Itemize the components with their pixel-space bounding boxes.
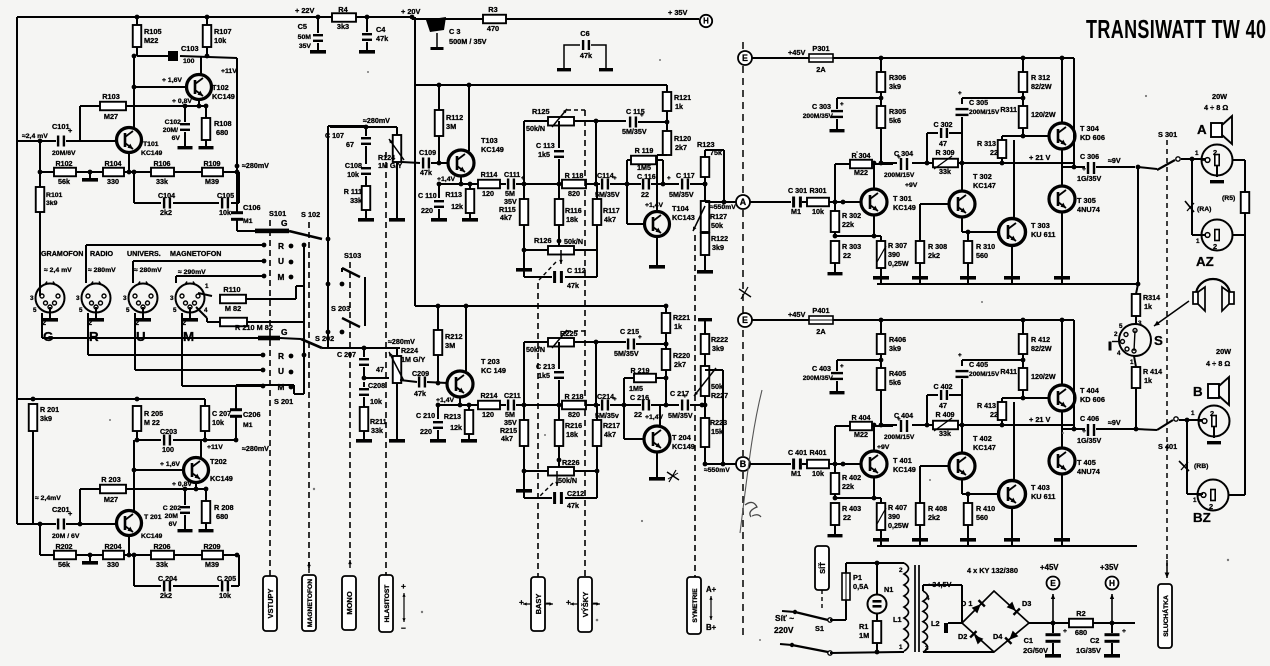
svg-text:≈2,4 mV: ≈2,4 mV: [22, 133, 48, 140]
capacitor C303: [836, 98, 838, 109]
svg-text:120: 120: [482, 190, 494, 198]
svg-text:+: +: [1122, 628, 1126, 635]
svg-text:1G/35V: 1G/35V: [1076, 646, 1101, 655]
svg-text:T104: T104: [672, 204, 690, 213]
svg-text:3k9: 3k9: [46, 200, 58, 207]
transistor T201: [117, 511, 142, 536]
svg-text:C 116: C 116: [637, 173, 656, 181]
svg-text:R 412: R 412: [1031, 336, 1050, 344]
resistor R407 trimmer: [877, 503, 886, 530]
wire T102 collector: [200, 56, 202, 75]
svg-text:C 210: C 210: [416, 412, 435, 420]
svg-text:R127: R127: [710, 213, 727, 221]
potentiometer R224 volume ch2: [396, 348, 398, 356]
capacitor C304: [900, 158, 902, 170]
svg-text:S103: S103: [344, 251, 361, 260]
svg-text:1: 1: [1196, 238, 1200, 245]
svg-text:10k: 10k: [812, 470, 824, 478]
svg-text:C 215: C 215: [620, 328, 639, 336]
wire +45V rail ch3: [833, 57, 1074, 59]
svg-text:+: +: [638, 334, 642, 341]
resistor R119: [626, 160, 628, 184]
capacitor C108: [361, 167, 371, 169]
svg-text:5M: 5M: [505, 411, 515, 419]
transformer core: [914, 565, 916, 652]
scan artifact cross A: [739, 289, 751, 297]
resistor R414: [1134, 356, 1136, 367]
svg-text:2k2: 2k2: [928, 514, 940, 522]
wire T304 base line: [1002, 135, 1050, 137]
svg-text:20M/6V: 20M/6V: [52, 150, 76, 157]
svg-text:KD 606: KD 606: [1080, 133, 1105, 142]
svg-text:R 307: R 307: [888, 242, 907, 250]
svg-text:R401: R401: [809, 449, 826, 457]
svg-text:3: 3: [30, 295, 34, 302]
svg-text:4: 4: [926, 595, 930, 602]
svg-text:BASY: BASY: [534, 594, 543, 615]
svg-text:R 404: R 404: [851, 414, 870, 422]
svg-text:M22: M22: [854, 169, 868, 177]
svg-text:C109: C109: [419, 149, 436, 157]
svg-text:R: R: [278, 351, 284, 361]
scan artifact pencil line: [740, 390, 762, 533]
svg-text:≈ 2,4mV: ≈ 2,4mV: [35, 495, 61, 502]
capacitor C106: [231, 211, 243, 214]
wire C403 tap: [880, 354, 882, 368]
potentiometer R125 treble: [548, 117, 574, 126]
resistor R213: [465, 410, 474, 434]
svg-text:C111: C111: [504, 171, 520, 179]
capacitor C403: [836, 360, 838, 371]
svg-text:C 401: C 401: [788, 449, 807, 457]
cross mark RB: [1179, 461, 1189, 471]
resistor R108: [202, 118, 211, 140]
svg-text:R 210 M 82: R 210 M 82: [235, 323, 273, 332]
svg-text:R314: R314: [1143, 294, 1160, 302]
capacitor C5: [313, 34, 323, 36]
svg-text:S 201: S 201: [274, 397, 293, 406]
svg-text:D 1: D 1: [961, 599, 972, 608]
svg-text:680: 680: [1075, 628, 1087, 637]
resistor R216: [558, 405, 560, 420]
svg-text:4k7: 4k7: [500, 214, 512, 222]
svg-text:H: H: [703, 17, 709, 26]
svg-text:T103: T103: [481, 136, 498, 145]
wire ch2 emitter row y555: [39, 524, 41, 555]
svg-text:47: 47: [939, 402, 947, 410]
svg-text:47k: 47k: [376, 34, 389, 43]
resistor R301: [807, 198, 829, 207]
wire C112 loop: [523, 250, 525, 277]
svg-text:R 409: R 409: [935, 411, 954, 419]
resistor R122: [701, 233, 710, 255]
svg-text:VÝŠKY: VÝŠKY: [581, 592, 590, 617]
resistor R212: [437, 306, 439, 330]
resistor R201: [29, 404, 38, 431]
svg-text:MONO: MONO: [345, 591, 354, 614]
svg-text:VSTUPY: VSTUPY: [266, 588, 275, 618]
capacitor C201: [17, 523, 56, 525]
svg-text:50k/N: 50k/N: [526, 125, 545, 133]
svg-text:R202: R202: [55, 543, 72, 551]
svg-text:+1,4V: +1,4V: [436, 397, 455, 404]
capacitor C209 coupling ch2: [364, 377, 389, 379]
svg-text:R120: R120: [674, 135, 691, 143]
svg-text:R 410: R 410: [976, 505, 995, 513]
svg-text:P301: P301: [812, 44, 829, 53]
svg-text:R4: R4: [338, 5, 348, 14]
svg-text:200M/15V: 200M/15V: [969, 109, 1000, 116]
capacitor C104: [163, 198, 165, 209]
svg-text:≈ 280mV: ≈ 280mV: [88, 267, 116, 274]
resistor R306: [880, 58, 882, 72]
transistor T403 power: [999, 481, 1026, 508]
svg-text:R 219: R 219: [630, 367, 649, 375]
resistor R3: [412, 18, 483, 20]
svg-text:82/2W: 82/2W: [1031, 345, 1052, 353]
svg-text:R126: R126: [534, 236, 552, 245]
wire R125 to C115 row: [596, 120, 626, 122]
capacitor C202: [184, 489, 186, 505]
svg-text:D3: D3: [1022, 599, 1031, 608]
node E +45V ch3: [738, 51, 752, 65]
svg-text:R211: R211: [370, 418, 387, 426]
svg-text:1G/35V: 1G/35V: [1077, 175, 1101, 183]
svg-text:50k/N: 50k/N: [564, 238, 583, 246]
svg-text:R 308: R 308: [928, 243, 947, 251]
wire R115 ground: [523, 250, 525, 268]
svg-text:P1: P1: [853, 573, 862, 582]
potentiometer R126 bass: [548, 246, 574, 255]
svg-text:+45V: +45V: [788, 48, 805, 57]
wire mid rail drop to bottom tone rail: [414, 85, 416, 306]
svg-text:22: 22: [641, 191, 649, 199]
svg-text:R121: R121: [674, 94, 691, 102]
resistor R310: [967, 232, 969, 241]
svg-text:33k: 33k: [156, 178, 168, 186]
svg-text:A: A: [740, 197, 747, 207]
transistor T301 input: [861, 189, 887, 215]
capacitor C114: [601, 179, 603, 190]
capacitor C208: [362, 376, 367, 381]
resistor R404 feedback: [834, 426, 836, 464]
svg-text:≈280mV: ≈280mV: [363, 117, 390, 125]
capacitor C4: [362, 33, 372, 35]
svg-text:≈550mV: ≈550mV: [704, 467, 730, 474]
fuse P401: [809, 316, 833, 324]
svg-text:HLASITOST: HLASITOST: [384, 584, 391, 623]
svg-text:A: A: [1197, 122, 1207, 137]
svg-text:MAGNETOFON: MAGNETOFON: [307, 579, 314, 627]
svg-text:(RA): (RA): [1197, 206, 1211, 213]
svg-text:33k: 33k: [939, 168, 951, 176]
svg-text:KC143: KC143: [672, 213, 695, 222]
svg-text:N1: N1: [884, 585, 893, 594]
svg-text:T 304: T 304: [1080, 124, 1100, 133]
svg-text:4NU74: 4NU74: [1077, 467, 1101, 476]
svg-text:C201: C201: [52, 505, 70, 514]
wire +20V drop and mid rail y85: [414, 17, 416, 85]
connector AZ output: [1202, 220, 1233, 251]
svg-text:+: +: [68, 509, 72, 518]
wire emitter row ch4: [835, 497, 881, 499]
resistor R305: [877, 106, 886, 128]
svg-text:R212: R212: [445, 332, 463, 341]
wire L2 to bridge: [922, 585, 924, 591]
svg-text:200M/35V: 200M/35V: [803, 113, 834, 120]
svg-text:4 x KY 132/380: 4 x KY 132/380: [967, 566, 1018, 575]
svg-text:1M5: 1M5: [629, 385, 643, 393]
svg-text:R109: R109: [203, 160, 220, 168]
svg-text:1k: 1k: [674, 323, 682, 331]
transformer T1 primary L1: [901, 562, 904, 564]
svg-text:R227: R227: [711, 392, 728, 400]
wire M input column: [175, 276, 177, 283]
switch S401: [1134, 427, 1139, 432]
svg-text:C2: C2: [1090, 636, 1099, 645]
svg-text:6V: 6V: [172, 135, 181, 142]
svg-text:2A: 2A: [816, 65, 826, 74]
svg-text:+11V: +11V: [221, 68, 237, 75]
svg-text:35V: 35V: [504, 419, 517, 427]
wire +0,8V node row y106: [80, 105, 206, 107]
wire bass row y250: [524, 249, 548, 251]
svg-text:+: +: [640, 112, 644, 119]
wire +21V row ch3: [881, 162, 897, 164]
wire rail drop to R105 R107: [136, 17, 138, 25]
svg-text:C 213: C 213: [536, 363, 555, 371]
capacitor C113: [558, 121, 560, 148]
svg-text:C 207: C 207: [212, 410, 231, 418]
wire dashed magnetofon column: [308, 222, 310, 570]
svg-text:+ 0,8V: + 0,8V: [172, 98, 192, 105]
capacitor C115: [629, 117, 631, 128]
wire T101 collector to T102 base: [133, 56, 135, 128]
svg-text:E: E: [1050, 578, 1056, 588]
svg-text:100: 100: [183, 58, 195, 65]
svg-text:C 117: C 117: [676, 172, 695, 180]
wire dashed S301 S401 sluchatka: [1166, 140, 1168, 566]
svg-text:5M/35V: 5M/35V: [614, 350, 639, 358]
capacitor C117: [663, 183, 679, 185]
resistor R117: [593, 199, 602, 225]
svg-text:5M/35V: 5M/35V: [668, 412, 693, 420]
resistor R314: [1137, 167, 1139, 284]
transistor T101: [117, 128, 142, 153]
svg-text:S 102: S 102: [301, 210, 320, 219]
svg-text:5k6: 5k6: [889, 379, 901, 387]
svg-text:47k: 47k: [580, 51, 593, 60]
svg-text:5: 5: [173, 307, 177, 314]
resistor R203: [100, 485, 126, 494]
svg-text:56k: 56k: [58, 561, 70, 569]
svg-text:C 107: C 107: [325, 132, 344, 140]
svg-text:C 207: C 207: [337, 351, 356, 359]
wire ground rail ch3: [873, 276, 889, 280]
svg-text:220V: 220V: [774, 625, 794, 635]
svg-text:+45V: +45V: [788, 310, 805, 319]
wire dashed vstupy column: [269, 220, 271, 576]
svg-text:R209: R209: [203, 543, 220, 551]
svg-text:20W: 20W: [1216, 347, 1231, 356]
svg-text:10k: 10k: [214, 36, 227, 45]
svg-text:T 404: T 404: [1080, 386, 1100, 395]
svg-text:2: 2: [1210, 409, 1214, 418]
svg-text:C 403: C 403: [812, 365, 831, 373]
svg-text:+: +: [519, 597, 524, 607]
svg-text:C 216: C 216: [630, 394, 649, 402]
wire dashed basy column: [537, 283, 539, 577]
transistor T304 driver: [1049, 123, 1075, 149]
svg-text:2: 2: [899, 567, 903, 574]
svg-text:U: U: [278, 366, 284, 376]
svg-text:50k: 50k: [711, 222, 723, 230]
svg-text:G: G: [281, 327, 288, 337]
capacitor C306: [1087, 162, 1089, 174]
svg-text:B: B: [740, 459, 746, 469]
resistor R308: [916, 241, 925, 263]
svg-text:T 303: T 303: [1031, 221, 1050, 230]
svg-text:R 403: R 403: [842, 505, 861, 513]
svg-text:M27: M27: [104, 495, 118, 504]
wire bank2 R input: [87, 313, 89, 355]
svg-text:R 312: R 312: [1031, 74, 1050, 82]
capacitor C404: [900, 420, 902, 432]
resistor RA load: [1241, 192, 1250, 213]
svg-text:R217: R217: [603, 422, 620, 430]
resistor R102: [54, 168, 76, 177]
svg-text:2A: 2A: [816, 327, 826, 336]
transistor T204: [659, 405, 661, 426]
resistor R112: [438, 85, 440, 110]
resistor R104: [103, 168, 124, 177]
resistor R121: [663, 92, 672, 111]
resistor R223: [704, 396, 706, 418]
svg-text:C203: C203: [160, 428, 177, 436]
svg-text:18k: 18k: [566, 216, 578, 224]
wire S201 routing: [294, 393, 304, 395]
capacitor C6: [564, 45, 580, 68]
svg-text:47: 47: [939, 140, 947, 148]
svg-text:R 407: R 407: [888, 504, 907, 512]
svg-text:6V: 6V: [169, 521, 178, 528]
svg-text:R 414: R 414: [1143, 368, 1162, 376]
svg-text:1k: 1k: [1144, 377, 1152, 385]
wire bank2 G input: [41, 313, 43, 338]
resistor R204: [103, 551, 124, 560]
svg-text:+ 22V: + 22V: [295, 6, 314, 15]
bridge rectifier diamond: [962, 591, 1029, 652]
resistor R116: [558, 184, 560, 199]
capacitor C402 loop: [926, 395, 928, 425]
svg-text:RADIO: RADIO: [90, 250, 113, 258]
svg-text:33k: 33k: [156, 561, 168, 569]
svg-text:R 303: R 303: [842, 243, 861, 251]
svg-text:≈ 290mV: ≈ 290mV: [178, 269, 206, 276]
svg-text:330: 330: [107, 561, 119, 569]
svg-text:≈280mV: ≈280mV: [242, 162, 269, 170]
wire A left leg to AZ: [1191, 159, 1193, 235]
resistor R219: [623, 378, 625, 405]
svg-text:R305: R305: [889, 108, 906, 116]
svg-text:1: 1: [1193, 497, 1197, 504]
svg-text:R 205: R 205: [144, 410, 163, 418]
resistor R408: [916, 503, 925, 525]
svg-text:R216: R216: [565, 422, 582, 430]
svg-text:3k9: 3k9: [712, 345, 724, 353]
svg-text:C 406: C 406: [1080, 415, 1099, 423]
svg-text:2k7: 2k7: [674, 361, 686, 369]
cross mark RA: [1185, 201, 1194, 212]
capacitor C109 coupling: [402, 162, 420, 163]
svg-text:C 205: C 205: [217, 575, 236, 583]
transistor T303 power: [999, 219, 1026, 246]
svg-text:22: 22: [843, 252, 851, 260]
wire T203 emitter row y405: [459, 397, 461, 405]
svg-text:390: 390: [888, 513, 900, 521]
svg-text:KC147: KC147: [973, 181, 996, 190]
wire dashed sit to switch: [821, 590, 823, 608]
wire output row to node A: [705, 201, 736, 203]
svg-text:T 204: T 204: [672, 433, 692, 442]
wire T103 emitter row y184: [460, 176, 462, 184]
svg-text:+ 0,8V: + 0,8V: [172, 481, 192, 488]
capacitor C110: [438, 184, 440, 198]
svg-text:KC147: KC147: [973, 443, 996, 452]
svg-text:47: 47: [376, 366, 384, 374]
svg-text:C212: C212: [567, 490, 584, 498]
svg-text:BZ: BZ: [1193, 510, 1211, 525]
label box HLASITOST: [379, 575, 393, 632]
capacitor C405: [961, 360, 963, 366]
capacitor C216: [624, 404, 641, 406]
svg-text:2k7: 2k7: [675, 144, 687, 152]
resistor R202: [54, 551, 76, 560]
svg-text:T102: T102: [212, 83, 229, 92]
svg-text:(RB): (RB): [1194, 463, 1208, 470]
wire +45V rail ch4: [833, 319, 1074, 321]
svg-text:330: 330: [107, 178, 119, 186]
svg-text:5M/35v: 5M/35v: [595, 412, 619, 420]
resistor R113: [466, 189, 475, 213]
svg-text:R123: R123: [697, 140, 715, 149]
svg-text:560: 560: [976, 252, 988, 260]
bridge rectifier terminal: [944, 623, 948, 633]
svg-text:S101: S101: [269, 209, 286, 218]
svg-text:220: 220: [421, 207, 433, 215]
svg-text:3k3: 3k3: [337, 22, 349, 31]
switch S301: [1136, 165, 1141, 170]
svg-text:R 413: R 413: [977, 402, 996, 410]
resistor R313: [1001, 136, 1003, 140]
resistor R103: [100, 102, 126, 111]
svg-text:R2: R2: [1076, 609, 1085, 618]
svg-text:R405: R405: [889, 370, 906, 378]
svg-text:+: +: [1082, 166, 1086, 173]
capacitor C3: [426, 17, 446, 32]
svg-text:50k: 50k: [711, 383, 723, 391]
svg-text:R 302: R 302: [842, 212, 861, 220]
wire R227 bypass loop: [705, 369, 723, 371]
svg-text:R108: R108: [214, 119, 232, 128]
fuse P301: [809, 54, 833, 62]
svg-text:M 82: M 82: [225, 304, 241, 313]
capacitor C210: [437, 405, 439, 419]
resistor R208: [202, 501, 211, 523]
svg-text:R 208: R 208: [214, 503, 234, 512]
svg-text:M: M: [183, 329, 194, 344]
svg-text:R226: R226: [562, 458, 580, 467]
